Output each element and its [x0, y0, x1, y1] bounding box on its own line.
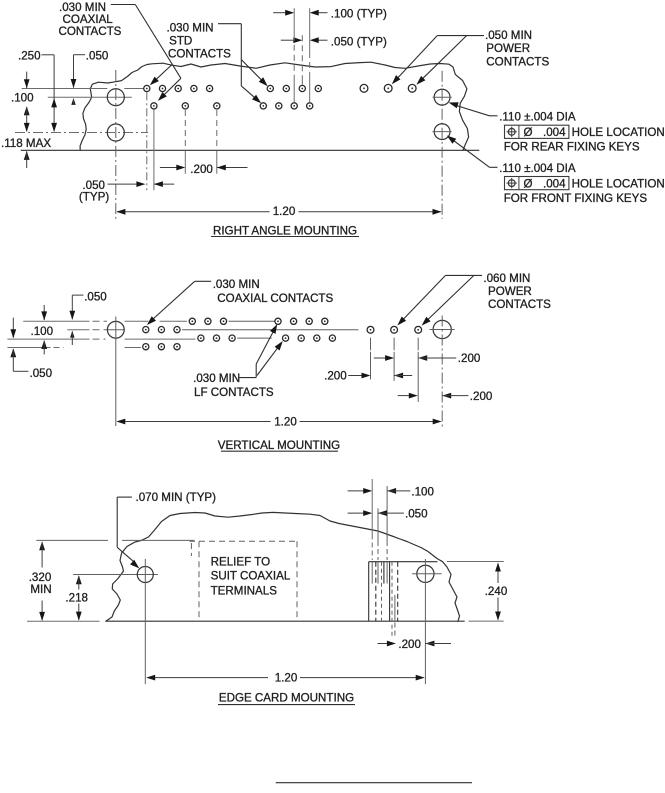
part outline (right angle mounting view) — [80, 62, 469, 150]
contact row 2 — [143, 327, 149, 333]
contact row 3 — [198, 335, 204, 341]
front fixing key hole (left) — [107, 124, 124, 141]
svg-text:CONTACTS: CONTACTS — [488, 298, 551, 311]
left key vertical center line — [115, 317, 117, 427]
left fixing key vertical center line — [115, 70, 117, 219]
leader std contacts — [218, 23, 241, 25]
svg-text:.200: .200 — [324, 370, 347, 383]
svg-text:.200: .200 — [398, 638, 421, 651]
svg-text:.050: .050 — [405, 508, 428, 521]
svg-text:POWER: POWER — [486, 42, 530, 55]
svg-text:Ø: Ø — [524, 178, 533, 191]
hole 1 (edge card) — [73, 574, 158, 576]
seating plane line — [36, 539, 108, 541]
feature control frame rear — [505, 125, 569, 138]
svg-text:.030 MIN: .030 MIN — [59, 1, 106, 14]
leader coaxial (vertical mounting) — [195, 280, 212, 282]
dimension arrows at x=44 (.100) — [43, 305, 45, 320]
power contacts row — [360, 84, 368, 92]
leader power contacts — [437, 35, 484, 37]
svg-text:EDGE CARD MOUNTING: EDGE CARD MOUNTING — [219, 691, 354, 704]
svg-text:CONTACTS: CONTACTS — [168, 48, 231, 61]
right key vertical center line — [441, 316, 443, 430]
svg-text:.050: .050 — [86, 49, 109, 62]
svg-text:.100: .100 — [11, 92, 34, 105]
dimension 1.20 top drawing — [117, 211, 270, 213]
svg-text:.118 MAX: .118 MAX — [1, 137, 51, 150]
coaxial/std contact row 1 group A — [144, 85, 150, 91]
rear fixing key hole (left) — [107, 89, 124, 106]
svg-text:HOLE LOCATION: HOLE LOCATION — [572, 126, 665, 139]
svg-text:.050: .050 — [30, 367, 53, 380]
left key hole (vertical mounting) — [107, 321, 124, 338]
contact row 2 group A — [151, 103, 157, 109]
power contacts (vertical mounting) — [367, 326, 374, 333]
leader front fixing keys note — [450, 138, 490, 168]
dimension .240 — [497, 563, 499, 583]
svg-text:POWER: POWER — [488, 285, 532, 298]
typ dimension extension lines — [293, 8, 295, 35]
row B extension line — [7, 338, 89, 340]
contact row 4 — [143, 344, 149, 350]
leader .060 power — [446, 274, 483, 276]
svg-text:LF CONTACTS: LF CONTACTS — [194, 386, 274, 399]
svg-text:VERTICAL MOUNTING: VERTICAL MOUNTING — [218, 439, 340, 452]
svg-text:.110 ±.004 DIA: .110 ±.004 DIA — [499, 111, 576, 124]
dimension arrows far left (.050 bottom) — [12, 318, 14, 338]
svg-text:.250: .250 — [18, 49, 41, 62]
svg-text:.240: .240 — [485, 585, 508, 598]
rear fixing key hole (right) — [434, 89, 450, 105]
feature control frame front — [505, 177, 569, 190]
svg-text:1.20: 1.20 — [274, 415, 297, 428]
svg-text:.060 MIN: .060 MIN — [483, 272, 530, 285]
svg-text:.030 MIN: .030 MIN — [193, 372, 240, 385]
svg-text:.200: .200 — [470, 390, 493, 403]
card slot top edge — [369, 561, 438, 563]
svg-text:MIN: MIN — [30, 583, 51, 596]
svg-text:FOR FRONT FIXING KEYS: FOR FRONT FIXING KEYS — [504, 192, 648, 205]
part outline (edge card mounting) — [106, 512, 460, 621]
dimension .200 third (y=395.6) — [398, 395, 410, 397]
svg-text:1.20: 1.20 — [273, 205, 296, 218]
dimension .100 (edge card) — [348, 490, 364, 492]
svg-text:.030 MIN: .030 MIN — [213, 278, 260, 291]
svg-text:.004: .004 — [543, 178, 566, 191]
dimension .200 top drawing — [184, 110, 186, 150]
svg-text:.004: .004 — [543, 126, 566, 139]
relief dashed outline — [190, 540, 196, 542]
contact row 1 group B — [267, 85, 273, 91]
dimension 1.20 (edge card) — [148, 677, 269, 679]
svg-text:STD: STD — [169, 35, 192, 48]
dimension .100 left — [26, 72, 28, 88]
svg-text:RELIEF TO: RELIEF TO — [211, 555, 271, 568]
svg-text:.200: .200 — [190, 163, 213, 176]
svg-text:.070 MIN (TYP): .070 MIN (TYP) — [136, 491, 217, 504]
svg-text:CONTACTS: CONTACTS — [59, 25, 122, 38]
row A extension line (vertical mounting) — [23, 320, 89, 322]
leader .070 — [117, 496, 132, 498]
card slot finger lines — [368, 562, 370, 622]
right key hole (vertical mounting) — [433, 320, 451, 338]
dimension .200 first (y=358) — [374, 357, 386, 359]
dimension .200 (edge card) — [378, 643, 389, 645]
leader coaxial contacts — [111, 4, 136, 6]
svg-text:.100: .100 — [31, 325, 54, 338]
contact row 1 (vertical mounting) — [189, 318, 195, 324]
right fixing key vertical center line — [441, 71, 443, 219]
row 2 long line to power contacts — [182, 329, 359, 331]
leader rear fixing keys note — [452, 104, 490, 116]
svg-text:COAXIAL CONTACTS: COAXIAL CONTACTS — [217, 292, 333, 305]
svg-text:.030 MIN: .030 MIN — [167, 22, 214, 35]
front key center line (dash-dot) — [15, 132, 148, 134]
svg-text:.218: .218 — [65, 591, 88, 604]
svg-text:.050: .050 — [84, 290, 107, 303]
front fixing key hole (right) — [434, 124, 450, 140]
svg-text:.200: .200 — [458, 352, 481, 365]
leader LF contacts — [239, 377, 256, 379]
svg-text:SUIT COAXIAL: SUIT COAXIAL — [211, 570, 291, 583]
svg-text:.050 (TYP): .050 (TYP) — [331, 36, 387, 49]
row mid extension line — [67, 329, 89, 331]
power contact extension dashed lines — [370, 338, 372, 351]
footer line — [276, 782, 472, 784]
svg-text:CONTACTS: CONTACTS — [486, 55, 549, 68]
svg-text:RIGHT ANGLE MOUNTING: RIGHT ANGLE MOUNTING — [213, 224, 357, 237]
svg-text:1.20: 1.20 — [275, 671, 298, 684]
svg-text:Ø: Ø — [524, 126, 533, 139]
svg-text:(TYP): (TYP) — [79, 191, 109, 204]
svg-text:.050 MIN: .050 MIN — [485, 29, 532, 42]
part bottom edge — [21, 149, 480, 151]
dimension .050 (edge card) — [348, 512, 364, 514]
slot dimension lines — [371, 479, 373, 535]
svg-text:FOR REAR FIXING KEYS: FOR REAR FIXING KEYS — [504, 141, 640, 154]
dimension 1.20 (vertical mounting) — [118, 421, 271, 423]
bottom edge (edge card mounting) — [27, 620, 100, 622]
svg-text:COAXIAL: COAXIAL — [63, 13, 114, 26]
row C extension line — [7, 347, 50, 349]
contact row 2 group B — [260, 103, 266, 109]
hole 2 (edge card) — [417, 565, 434, 582]
svg-text:.110 ±.004 DIA: .110 ±.004 DIA — [499, 162, 576, 175]
fixing key center extension line — [48, 96, 132, 98]
svg-text:.100: .100 — [411, 486, 434, 499]
svg-text:.100 (TYP): .100 (TYP) — [331, 8, 387, 21]
row-1 contact extension line — [22, 88, 108, 90]
dimension .218 — [76, 575, 82, 584]
svg-text:TERMINALS: TERMINALS — [211, 585, 278, 598]
svg-text:HOLE LOCATION: HOLE LOCATION — [572, 178, 665, 191]
